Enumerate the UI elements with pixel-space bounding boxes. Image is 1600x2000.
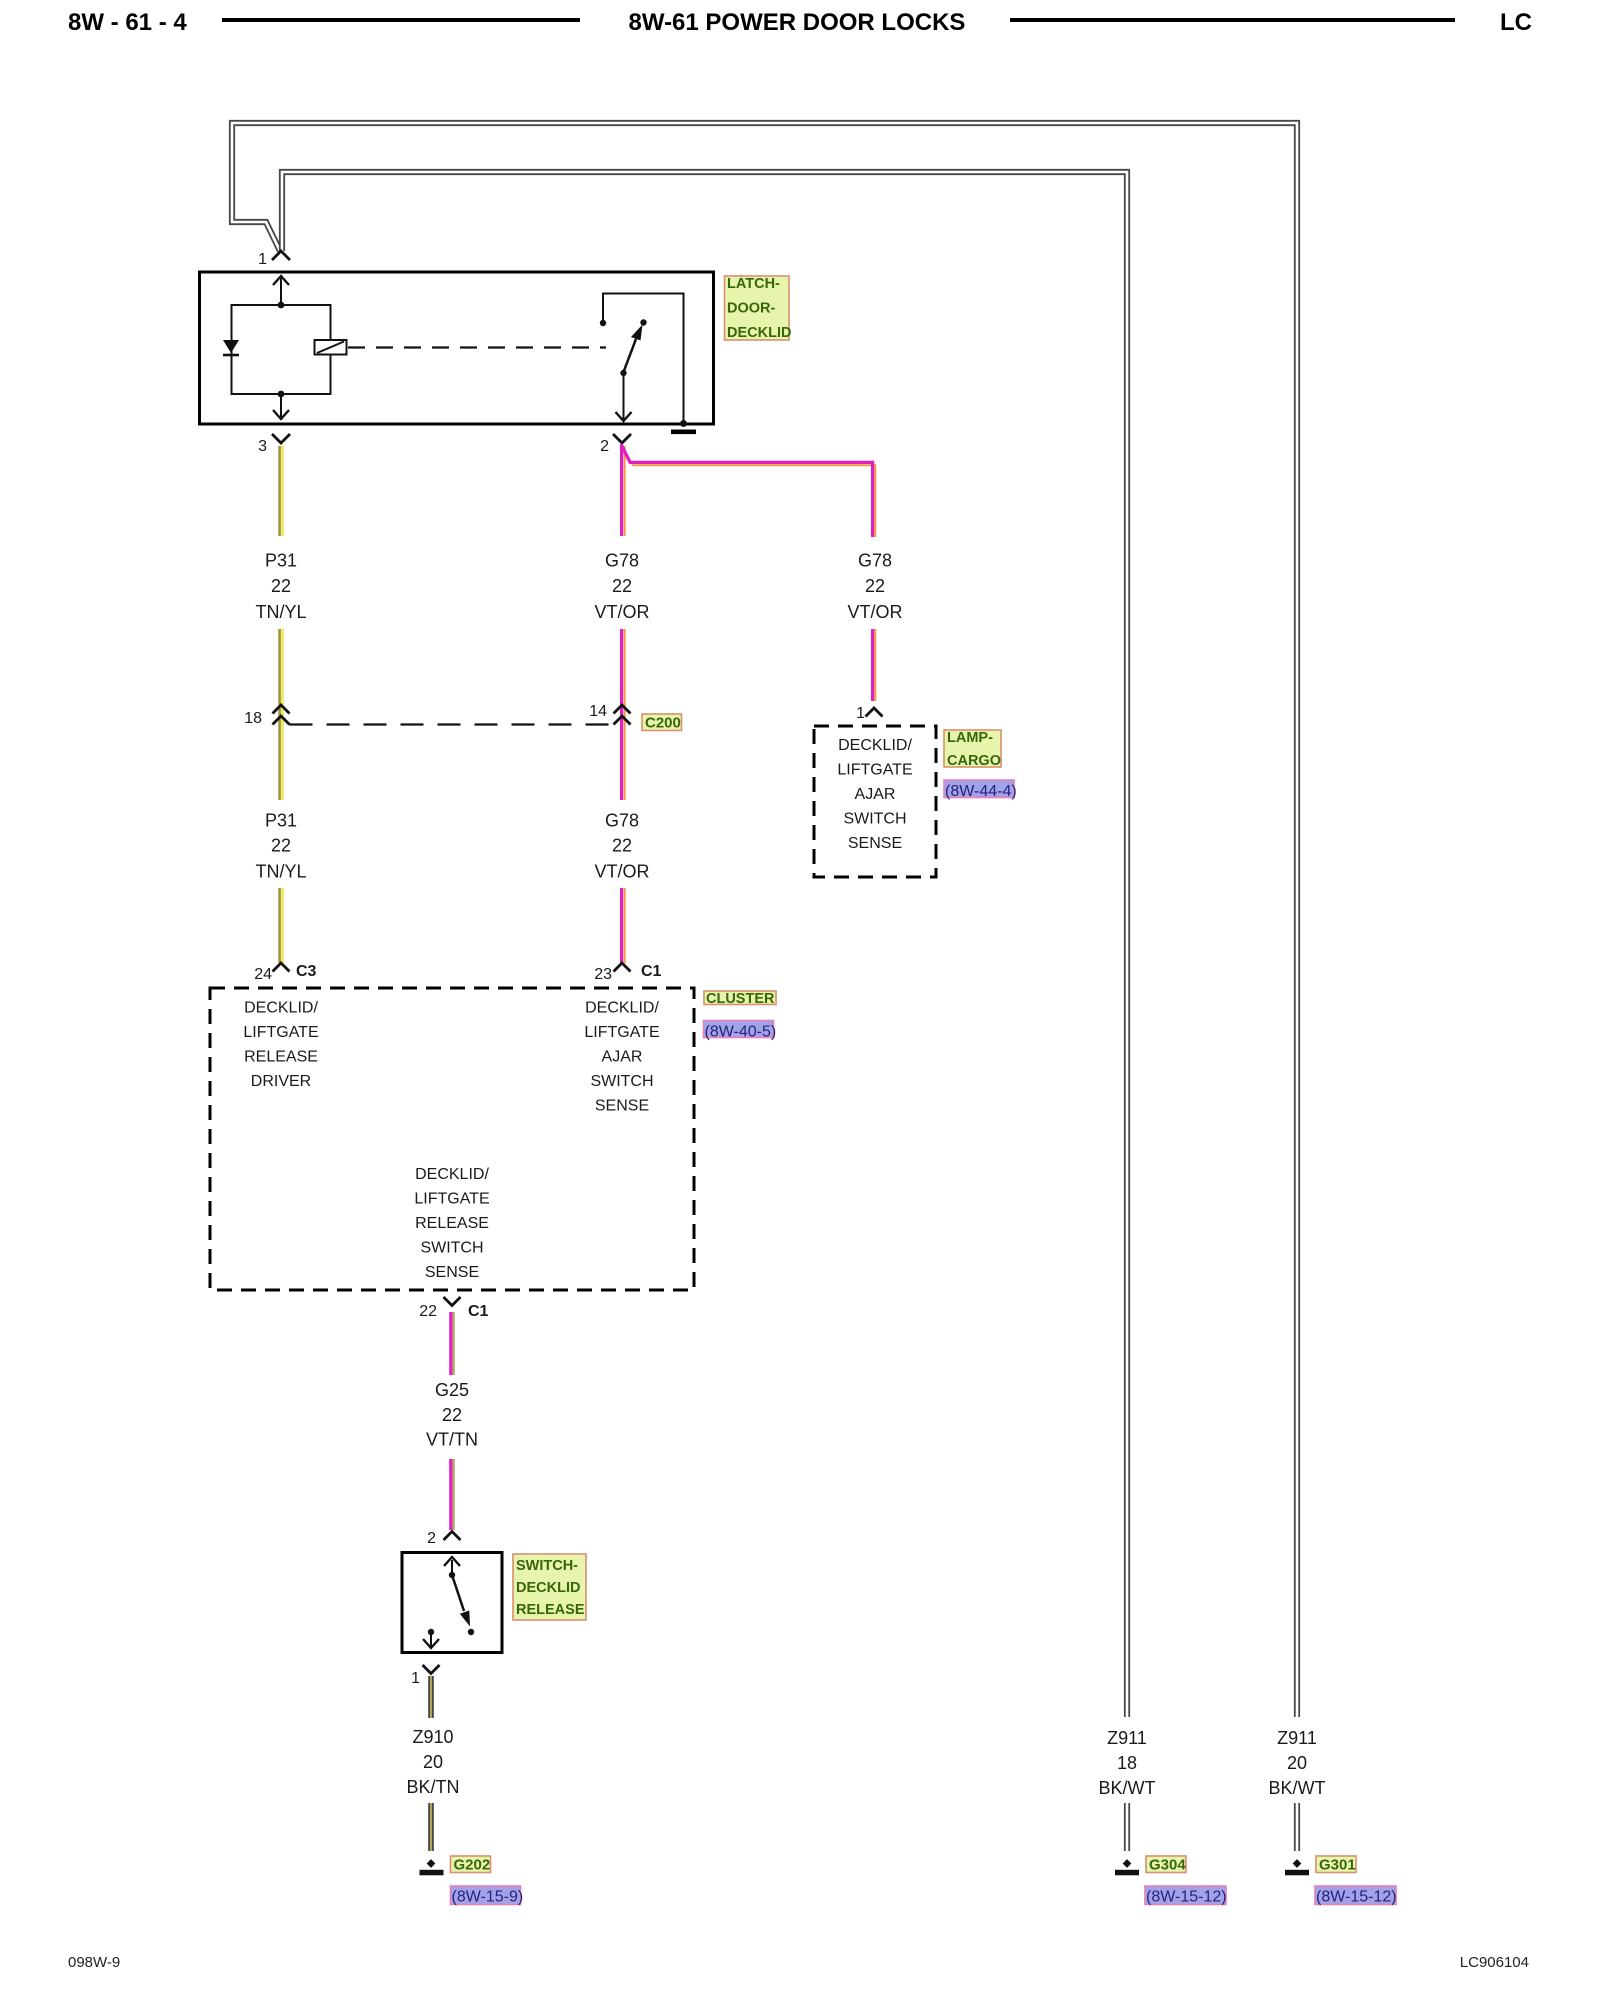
svg-text:RELEASE: RELEASE: [244, 1049, 318, 1066]
switch output contact dot: [428, 1629, 434, 1635]
blade output arrow to pin 2: [623, 373, 625, 420]
label LATCH-DOOR-DECKLID: [725, 276, 790, 340]
svg-text:DECKLID/: DECKLID/: [244, 1000, 318, 1017]
junction at case ground: [680, 420, 687, 427]
svg-text:1: 1: [856, 705, 865, 722]
svg-text:CARGO: CARGO: [947, 753, 1001, 769]
relay actuation dashed link: [348, 346, 606, 348]
ground G304 symbol: [1123, 1859, 1132, 1868]
label SWITCH-DECKLID RELEASE: [513, 1554, 586, 1620]
svg-text:BK/WT: BK/WT: [1269, 1778, 1326, 1798]
wire Z910 segment 2: [428, 1803, 434, 1851]
svg-text:DECKLID/: DECKLID/: [415, 1166, 489, 1183]
svg-text:20: 20: [1287, 1753, 1307, 1773]
svg-text:SENSE: SENSE: [595, 1098, 649, 1115]
svg-text:8W-61 POWER DOOR LOCKS: 8W-61 POWER DOOR LOCKS: [629, 9, 966, 36]
switch pivot dot: [449, 1572, 455, 1578]
svg-text:22: 22: [271, 576, 291, 596]
svg-text:C1: C1: [641, 963, 662, 980]
label (8W-40-5): [704, 1021, 774, 1038]
svg-text:1: 1: [258, 251, 267, 268]
ground G301 symbol: [1293, 1859, 1302, 1868]
blade tip dot: [640, 319, 646, 325]
relay coil: [315, 340, 347, 355]
connector pin 1 (switch-decklid bottom): [423, 1665, 440, 1674]
svg-text:Z911: Z911: [1277, 1728, 1317, 1748]
svg-text:CLUSTER: CLUSTER: [706, 991, 775, 1007]
svg-text:SWITCH: SWITCH: [420, 1240, 483, 1257]
svg-text:G202: G202: [454, 1857, 491, 1874]
svg-text:SWITCH-: SWITCH-: [516, 1558, 578, 1574]
svg-text:22: 22: [442, 1405, 462, 1425]
switch input arrow: [451, 1560, 453, 1575]
svg-text:DOOR-: DOOR-: [727, 301, 776, 317]
wire G78 22 VT/OR segment 2: [622, 629, 625, 800]
svg-text:BK/WT: BK/WT: [1099, 1778, 1156, 1798]
svg-text:Z911: Z911: [1107, 1728, 1147, 1748]
svg-text:VT/OR: VT/OR: [847, 602, 902, 622]
svg-text:8W - 61 - 4: 8W - 61 - 4: [68, 9, 187, 36]
label (8W-15-12) lower left: [1145, 1886, 1226, 1905]
svg-text:SENSE: SENSE: [425, 1264, 479, 1281]
svg-text:SENSE: SENSE: [848, 835, 902, 852]
connector pin 2 (latch): [613, 434, 631, 443]
svg-text:DECKLID/: DECKLID/: [585, 1000, 659, 1017]
svg-text:SWITCH: SWITCH: [843, 811, 906, 828]
svg-text:LAMP-: LAMP-: [947, 730, 993, 746]
coil return arrow (pin3 side): [280, 394, 282, 417]
blade tip dot: [468, 1629, 474, 1635]
wire G25 segment 2: [451, 1459, 454, 1530]
diode CR1: [223, 340, 239, 353]
wire G78 segment 3: [622, 888, 625, 963]
svg-text:VT/TN: VT/TN: [426, 1430, 478, 1450]
svg-text:23: 23: [594, 966, 612, 983]
svg-text:22: 22: [419, 1303, 437, 1320]
svg-text:TN/YL: TN/YL: [255, 602, 306, 622]
svg-text:C1: C1: [468, 1303, 489, 1320]
lamp-cargo DECKLID/LIFTGATE AJAR SWITCH SENSE dashed box: [814, 726, 936, 877]
switch blade: [624, 339, 637, 372]
svg-text:LIFTGATE: LIFTGATE: [584, 1024, 659, 1041]
svg-text:098W-9: 098W-9: [68, 1954, 120, 1971]
svg-text:(8W-15-12): (8W-15-12): [1316, 1889, 1397, 1906]
wire P31 22 TN/YL segment 2: [280, 629, 283, 800]
wire Z911 20 BK/WT top run (outer): [232, 123, 1297, 1717]
label G301: [1316, 1856, 1356, 1873]
connector pin 22 C1 (cluster bottom): [444, 1297, 461, 1306]
label (8W-44-4): [944, 780, 1014, 798]
svg-text:G78: G78: [605, 811, 639, 831]
wire P31 segment 3: [280, 888, 283, 963]
node junction bottom of coil loop: [278, 391, 285, 398]
wire P31 22 TN/YL segment 1: [280, 446, 283, 536]
svg-text:G301: G301: [1319, 1857, 1356, 1874]
svg-text:2: 2: [427, 1530, 436, 1547]
svg-text:G78: G78: [605, 551, 639, 571]
cluster dashed box: [210, 988, 694, 1290]
svg-text:(8W-40-5): (8W-40-5): [705, 1024, 777, 1041]
node junction top of coil loop: [278, 302, 285, 309]
svg-text:22: 22: [612, 836, 632, 856]
wire G78 branch to lamp (corner): [621, 444, 875, 537]
svg-text:14: 14: [589, 703, 607, 720]
svg-text:3: 3: [258, 438, 267, 455]
svg-text:22: 22: [271, 836, 291, 856]
svg-text:P31: P31: [265, 811, 297, 831]
blade pivot dot: [620, 370, 626, 376]
svg-text:AJAR: AJAR: [855, 786, 896, 803]
svg-text:DRIVER: DRIVER: [251, 1073, 311, 1090]
header right rule: [1010, 18, 1455, 22]
svg-text:2: 2: [600, 438, 609, 455]
wire Z911 18 BK/WT top run (inner): [282, 172, 1127, 1717]
svg-text:(8W-15-9): (8W-15-9): [452, 1889, 524, 1906]
svg-text:20: 20: [423, 1752, 443, 1772]
connector pin 2 (switch-decklid): [444, 1532, 461, 1541]
wire G78 22 VT/OR segment 1: [622, 446, 625, 536]
svg-text:C200: C200: [645, 715, 681, 732]
svg-text:LIFTGATE: LIFTGATE: [837, 762, 912, 779]
svg-text:24: 24: [254, 966, 272, 983]
svg-text:18: 18: [244, 710, 262, 727]
relay contact feed L-wire to ground: [603, 294, 684, 424]
wire Z911 18 lower segment: [1124, 1803, 1130, 1851]
wire Z910 20 BK/TN segment 1: [428, 1676, 434, 1718]
svg-text:Z910: Z910: [412, 1727, 453, 1747]
C200 in-line dashed connector line: [290, 723, 614, 725]
switch output arrow: [430, 1632, 432, 1646]
svg-text:RELEASE: RELEASE: [516, 1602, 585, 1618]
svg-text:VT/OR: VT/OR: [594, 602, 649, 622]
label G304: [1146, 1856, 1186, 1873]
connector pin 1 (latch): [272, 251, 290, 260]
connector pin 24 C3 (cluster): [273, 963, 290, 972]
header left rule: [222, 18, 580, 22]
contact dot: [600, 320, 606, 326]
svg-text:(8W-44-4): (8W-44-4): [945, 783, 1017, 800]
svg-text:(8W-15-12): (8W-15-12): [1146, 1889, 1227, 1906]
svg-text:LATCH-: LATCH-: [727, 276, 780, 292]
svg-text:TN/YL: TN/YL: [255, 862, 306, 882]
svg-text:DECKLID: DECKLID: [727, 325, 791, 341]
connector pin 1 (lamp-cargo): [866, 708, 883, 717]
label (8W-15-12) lower right: [1315, 1886, 1396, 1905]
svg-text:P31: P31: [265, 551, 297, 571]
svg-text:G25: G25: [435, 1380, 469, 1400]
ground G202 symbol: [427, 1859, 436, 1868]
connector C200 pin 18: [273, 705, 290, 714]
wire Z911 20 lower segment: [1294, 1803, 1300, 1851]
wire G78 branch lower segment: [873, 629, 876, 701]
label LAMP-CARGO: [944, 730, 1001, 767]
relay/latch module LATCH-DOOR-DECKLID box: [200, 272, 714, 424]
svg-text:RELEASE: RELEASE: [415, 1215, 489, 1232]
label (8W-15-9): [451, 1886, 521, 1905]
label C200: [642, 714, 682, 731]
svg-text:SWITCH: SWITCH: [590, 1073, 653, 1090]
svg-text:LIFTGATE: LIFTGATE: [243, 1024, 318, 1041]
connector C200 pin 14: [614, 705, 631, 714]
wire G25 22 VT/TN segment 1: [451, 1312, 454, 1375]
connector pin 23 C1 (cluster): [614, 963, 631, 972]
label CLUSTER: [704, 991, 776, 1005]
svg-text:LC906104: LC906104: [1460, 1954, 1529, 1971]
label G202: [451, 1856, 491, 1873]
svg-text:G304: G304: [1149, 1857, 1186, 1874]
svg-text:G78: G78: [858, 551, 892, 571]
svg-text:DECKLID: DECKLID: [516, 1580, 580, 1596]
svg-text:1: 1: [411, 1670, 420, 1687]
svg-text:LC: LC: [1500, 9, 1532, 36]
svg-text:LIFTGATE: LIFTGATE: [414, 1191, 489, 1208]
switch blade: [452, 1575, 464, 1611]
case ground bar: [671, 430, 696, 435]
svg-text:C3: C3: [296, 963, 317, 980]
svg-text:22: 22: [612, 576, 632, 596]
svg-text:22: 22: [865, 576, 885, 596]
relay coil feed arrow (pin1 side): [280, 278, 282, 305]
connector pin 3 (latch): [272, 434, 290, 443]
svg-text:VT/OR: VT/OR: [594, 862, 649, 882]
switch-decklid release box: [402, 1553, 502, 1653]
svg-text:BK/TN: BK/TN: [406, 1777, 459, 1797]
coil loop wire: [232, 305, 331, 394]
svg-text:DECKLID/: DECKLID/: [838, 737, 912, 754]
svg-text:AJAR: AJAR: [602, 1049, 643, 1066]
svg-text:18: 18: [1117, 1753, 1137, 1773]
